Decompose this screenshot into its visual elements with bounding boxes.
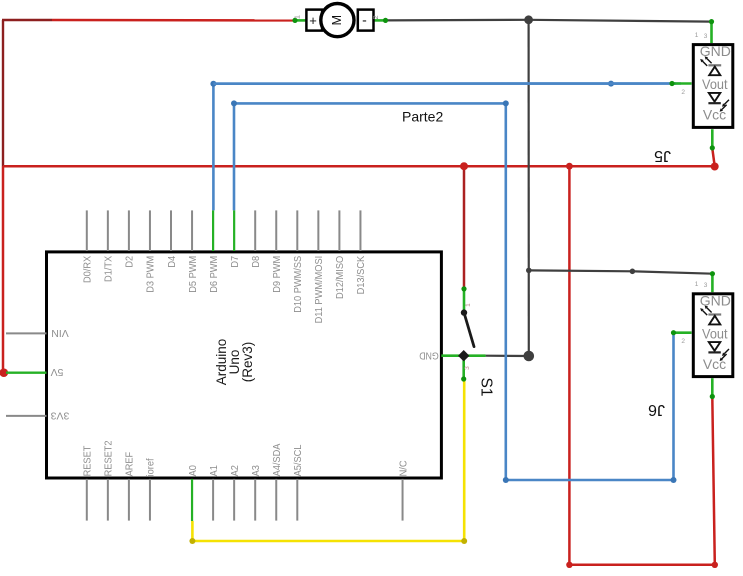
svg-text:D8: D8 — [250, 256, 262, 268]
svg-text:1: 1 — [695, 32, 699, 39]
svg-text:3V3: 3V3 — [51, 409, 70, 421]
svg-text:1: 1 — [465, 303, 472, 307]
svg-text:RESET: RESET — [82, 445, 94, 476]
svg-text:1: 1 — [293, 15, 302, 19]
svg-text:D13/SCK: D13/SCK — [355, 256, 367, 295]
svg-text:D9 PWM: D9 PWM — [271, 256, 283, 293]
svg-text:D2: D2 — [124, 256, 136, 268]
svg-text:2: 2 — [371, 15, 380, 19]
svg-text:A3: A3 — [250, 465, 262, 476]
svg-text:A5/SCL: A5/SCL — [292, 444, 304, 476]
svg-text:D0/RX: D0/RX — [82, 256, 94, 283]
svg-text:2: 2 — [681, 89, 685, 96]
svg-text:A1: A1 — [208, 465, 220, 476]
svg-text:Vout: Vout — [702, 76, 728, 92]
svg-text:GND: GND — [700, 43, 731, 59]
svg-text:Parte2: Parte2 — [402, 108, 443, 124]
svg-text:D3 PWM: D3 PWM — [145, 256, 157, 293]
svg-text:D5 PWM: D5 PWM — [187, 256, 199, 293]
svg-text:D6 PWM: D6 PWM — [208, 256, 220, 293]
svg-text:ioref: ioref — [145, 458, 157, 476]
svg-text:VIN: VIN — [51, 327, 69, 339]
svg-text:+: + — [309, 13, 317, 28]
svg-text:J5: J5 — [654, 147, 671, 164]
svg-text:A2: A2 — [229, 465, 241, 476]
svg-text:3: 3 — [704, 282, 708, 289]
svg-text:Vout: Vout — [702, 325, 728, 341]
svg-text:A4/SDA: A4/SDA — [271, 444, 283, 477]
svg-text:N/C: N/C — [397, 460, 409, 476]
svg-text:J6: J6 — [648, 401, 665, 418]
svg-text:GND: GND — [419, 349, 439, 361]
svg-text:1: 1 — [695, 281, 699, 288]
svg-text:2: 2 — [681, 338, 685, 345]
svg-text:3: 3 — [704, 33, 708, 40]
svg-text:D11 PWM/MOSI: D11 PWM/MOSI — [313, 256, 325, 324]
svg-text:RESET2: RESET2 — [103, 440, 115, 476]
svg-text:-: - — [362, 12, 367, 28]
svg-text:A0: A0 — [187, 465, 199, 476]
svg-text:(Rev3): (Rev3) — [240, 342, 255, 383]
svg-text:D12/MISO: D12/MISO — [334, 256, 346, 299]
svg-text:D10 PWM/SS: D10 PWM/SS — [292, 256, 304, 313]
svg-text:S1: S1 — [478, 378, 495, 397]
svg-text:M: M — [330, 15, 344, 25]
svg-text:D4: D4 — [166, 256, 178, 268]
svg-text:5V: 5V — [51, 366, 64, 378]
svg-text:AREF: AREF — [124, 452, 136, 477]
svg-text:D7: D7 — [229, 256, 241, 268]
svg-text:GND: GND — [700, 292, 731, 308]
svg-text:D1/TX: D1/TX — [103, 256, 115, 282]
svg-text:3: 3 — [464, 366, 471, 370]
